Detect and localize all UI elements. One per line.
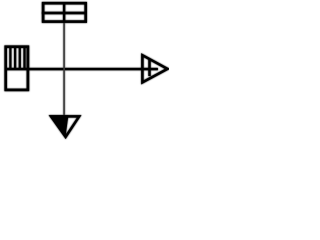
wire vertical: [63, 2, 65, 117]
right triangle: [142, 55, 167, 82]
top box: [42, 2, 87, 23]
left box: [6, 47, 28, 90]
bottom arrow: [50, 115, 79, 138]
wire horizontal: [5, 68, 158, 70]
